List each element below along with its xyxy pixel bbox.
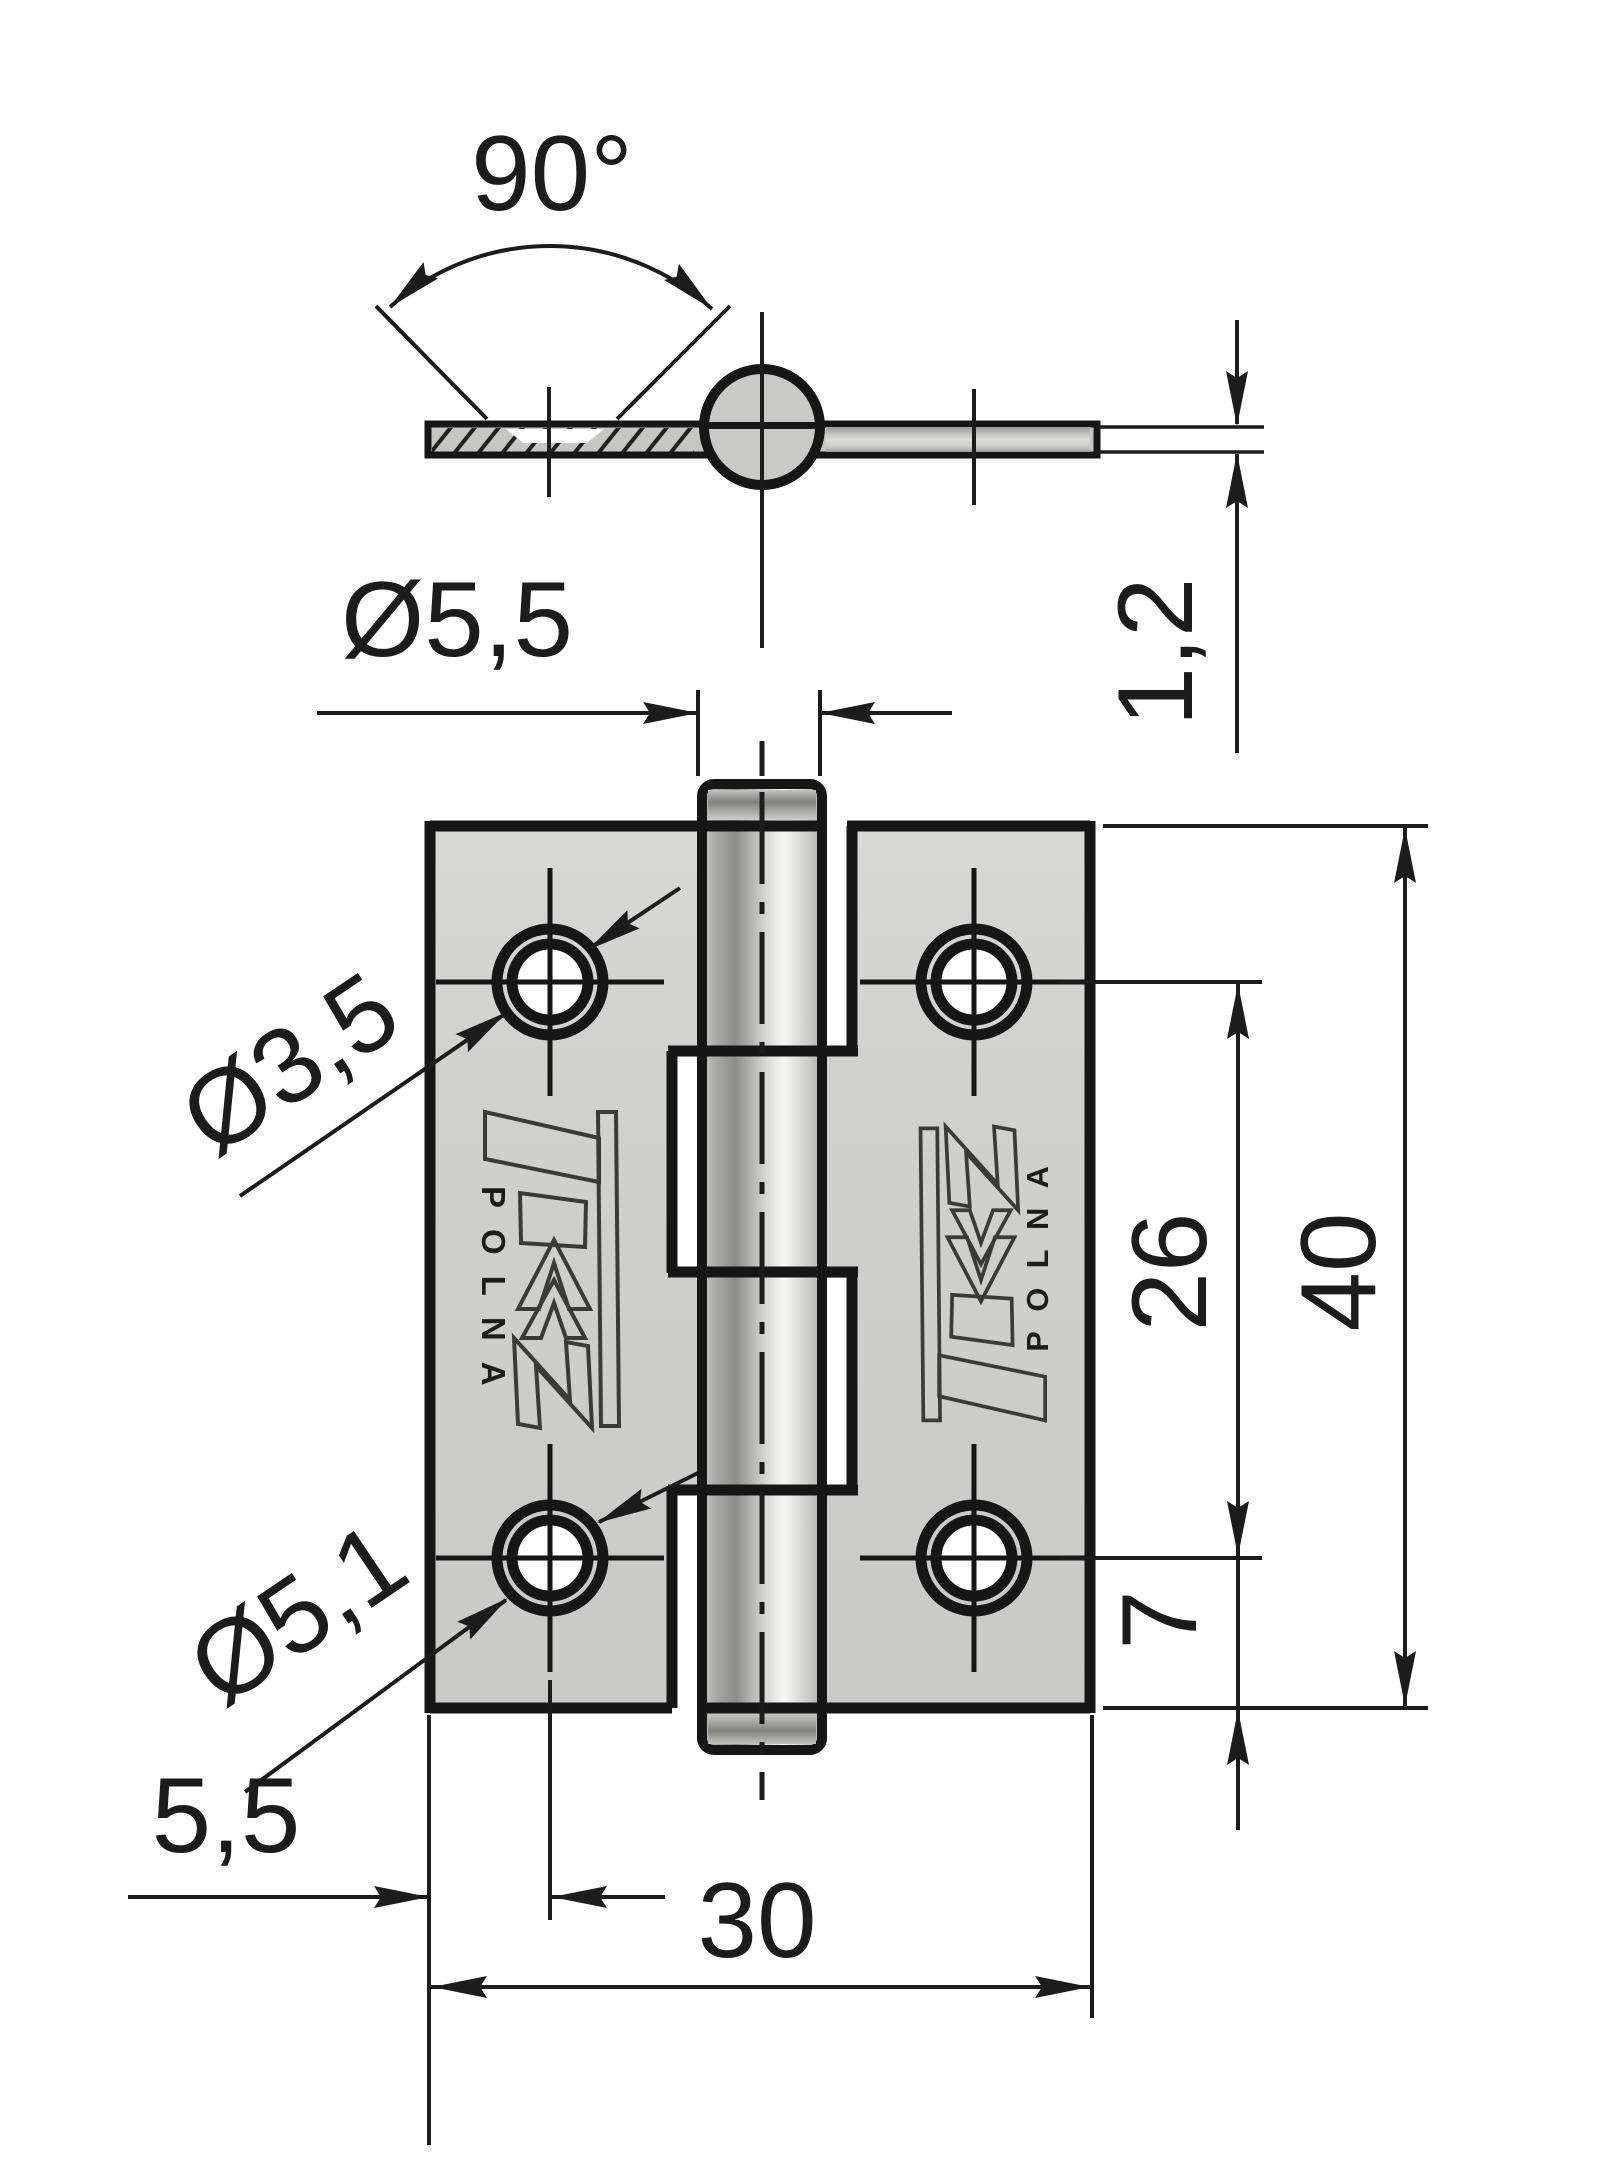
screw hole top-right (countersunk)	[860, 868, 1088, 1096]
svg-text:26: 26	[1109, 1212, 1229, 1331]
hole centerline tick right	[972, 389, 976, 505]
pin top cap shading	[708, 790, 816, 820]
svg-text:Ø5,1: Ø5,1	[168, 1499, 427, 1728]
leaf end outline (thin)	[1096, 425, 1264, 429]
countersink void in section	[506, 429, 604, 443]
left leaf plate	[430, 828, 702, 1708]
knuckle clearance gap top-right	[826, 818, 848, 1048]
left leaf left edge	[425, 821, 436, 1713]
svg-text:5,5: 5,5	[152, 1755, 301, 1875]
90 degree flank lines	[376, 306, 487, 419]
svg-text:7: 7	[1099, 1590, 1219, 1650]
plate edge line through knuckle (horizontal crosshair)	[702, 422, 823, 429]
knuckle clearance gap lower-right	[826, 1278, 848, 1486]
top edges	[430, 821, 826, 832]
right leaf knuckle cut edges	[847, 826, 858, 1051]
dim 7	[1236, 1558, 1240, 1830]
left leaf knuckle cut edges	[667, 1051, 678, 1273]
90 degree arc	[390, 246, 712, 309]
svg-text:30: 30	[697, 1860, 816, 1980]
right side dimensions	[1103, 824, 1428, 828]
knuckle circle	[704, 369, 820, 485]
pin bottom cap shading	[708, 1712, 816, 1744]
screw hole top-left (countersunk)	[436, 868, 664, 1096]
svg-text:Ø3,5: Ø3,5	[160, 949, 419, 1178]
svg-text:40: 40	[1278, 1212, 1398, 1331]
hinge pin	[702, 784, 822, 1750]
pin centerline	[760, 312, 764, 648]
screw hole bottom-right (countersunk)	[860, 1444, 1088, 1672]
TKZ logo right leaf	[921, 1127, 1055, 1421]
svg-text:1,2: 1,2	[1095, 578, 1215, 727]
dim 40	[1403, 826, 1407, 1708]
knuckle division lines	[668, 1046, 858, 1057]
knuckle clearance gap upper-left	[676, 1056, 697, 1268]
hinge plate strip (section)	[428, 424, 1097, 455]
TKZ logo left leaf	[475, 1112, 619, 1428]
bottom edges	[430, 1703, 672, 1714]
svg-text:90°: 90°	[471, 113, 633, 233]
knuckle clearance gap bottom-left	[676, 1495, 697, 1720]
screw hole bottom-left (countersunk)	[436, 1444, 664, 1672]
leaf outlines	[430, 821, 1090, 1713]
pin axis centerline	[760, 741, 765, 776]
right leaf right edge	[1085, 821, 1096, 1713]
right leaf plate	[822, 828, 1090, 1708]
screw holes	[436, 868, 1088, 1672]
svg-text:Ø5,5: Ø5,5	[341, 559, 573, 679]
section hatching (left leaf)	[420, 416, 724, 466]
right leaf smooth shading	[826, 427, 1090, 452]
dimension 1,2 (thickness)	[1235, 320, 1239, 424]
hole centerline tick left	[547, 387, 551, 497]
dim 26	[1236, 982, 1240, 1558]
